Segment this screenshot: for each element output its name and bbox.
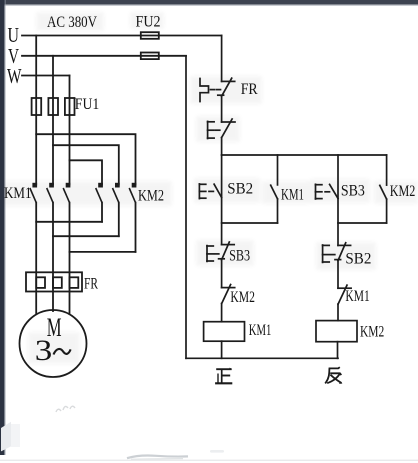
svg-text:W: W [7, 64, 22, 88]
wire bottom bus [186, 357, 338, 359]
watermark faint marks [56, 406, 75, 412]
wire left rail from V line down [185, 56, 187, 359]
watermark remnant left wedge [1, 422, 11, 452]
wire KM1 coil to bottom bus [221, 341, 223, 358]
pushbutton SB1 operator E [208, 121, 220, 138]
thermal relay FR heater 1 [36, 277, 45, 288]
wire right branch column SB3' [337, 155, 339, 245]
wire column L3 from W line through FU1 [69, 76, 71, 116]
fuse FU2 lower element [141, 53, 159, 60]
wire SB3 to KM2 interlock [221, 260, 223, 288]
svg-text:KM2: KM2 [138, 188, 164, 205]
wire merge output 3 [70, 251, 136, 253]
wire SB2' to KM1 interlock [337, 261, 339, 289]
motor M circle [20, 310, 87, 377]
wire phase-U top line [22, 35, 222, 37]
coil KM1 [204, 322, 245, 342]
pushbutton SB2 operator E [199, 184, 213, 199]
thermal relay FR heater 2 [53, 277, 62, 288]
label ~ (motor AC symbol) drawn stroke [54, 349, 71, 355]
contact KM2 pole3 [129, 184, 135, 203]
faint small mark bottom right of center [210, 450, 224, 453]
svg-text:FU2: FU2 [136, 14, 161, 31]
wire main column top from U line [221, 36, 223, 82]
pushbutton SB3 NC contact (reverse branch) [330, 184, 338, 198]
wire column L2 from V line through FU1 [52, 56, 54, 115]
wire feed crossover L1 to KM2 pole3 [36, 134, 135, 184]
contact FR NC (control) [218, 78, 235, 96]
wire stop button to branch bus [221, 138, 223, 155]
wire phase-W line [22, 75, 70, 77]
watermark remnant swish bottom center [127, 456, 188, 460]
thermal relay FR box [26, 272, 82, 291]
wire phase-V line [22, 55, 186, 57]
svg-text:SB3: SB3 [229, 248, 250, 265]
top dark border bar [0, 0, 418, 6]
contactor KM1 main contacts (3 poles) + contactor KM2 main contacts (3 poles) [30, 184, 136, 203]
coil KM2 [316, 321, 357, 342]
wire KM2 interlock to KM1 coil [221, 304, 223, 322]
contact KM2 holding NO [380, 155, 387, 223]
contact KM1 holding NO [271, 155, 278, 223]
wire KM1 interlock to KM2 coil [337, 304, 339, 321]
wire right pair rejoin [338, 222, 387, 224]
wire column L1 from FU1 to KM1 contact [35, 115, 37, 185]
contact KM2 interlock NC [222, 285, 235, 304]
contact KM2 pole1 [96, 184, 102, 203]
pushbutton SB1 stop NC contact [222, 119, 235, 138]
svg-text:KM2: KM2 [360, 324, 384, 341]
svg-text:SB3: SB3 [341, 183, 365, 200]
svg-text:FR: FR [241, 81, 258, 98]
svg-text:SB2: SB2 [227, 181, 253, 198]
svg-text:KM1: KM1 [345, 288, 369, 305]
wire feed crossover L2 to KM2 pole2 [53, 145, 119, 184]
svg-text:KM2: KM2 [230, 289, 255, 306]
wire branch bus [222, 154, 387, 156]
wire KM2 pole3 output lead [135, 203, 137, 252]
thermal relay FR heater 3 [70, 277, 79, 288]
wire KM2 coil to bottom bus [337, 342, 339, 359]
svg-text:KM1: KM1 [4, 185, 32, 202]
left dark border bar [0, 0, 6, 455]
svg-text:3: 3 [35, 334, 53, 367]
pushbutton SB3' operator E [316, 184, 330, 199]
pushbutton SB2' operator E [323, 245, 335, 262]
fuse FU1 element 3 [65, 98, 75, 115]
wire merge output 2 [53, 235, 119, 237]
wire column L2 from FU1 to KM1 contact [52, 115, 54, 185]
wire left pair rejoin [222, 222, 278, 224]
fuse FU1 element 2 [48, 98, 58, 115]
contact KM1 pole1 [30, 184, 36, 203]
pushbutton SB3 operator E [207, 246, 219, 262]
pushbutton SB2 NC contact (forward stop-interlock) [214, 184, 222, 197]
fuse FU2 upper element [141, 32, 159, 39]
contact KM1 pole3 [63, 184, 69, 203]
svg-text:FR: FR [84, 275, 98, 292]
svg-text:SB2: SB2 [345, 251, 371, 268]
label 正 (forward) drawn strokes [215, 368, 232, 384]
svg-text:KM1: KM1 [281, 186, 304, 203]
fuse FU1 element 1 [32, 98, 42, 115]
wire between FR contact and stop button [221, 96, 223, 122]
wire feed crossover L3 to KM2 pole1 [70, 160, 103, 184]
svg-text:AC 380V: AC 380V [47, 14, 98, 31]
wire merge output 1 [36, 221, 102, 223]
svg-text:KM2: KM2 [390, 183, 416, 200]
contact KM1 pole2 [47, 184, 53, 203]
control circuit [186, 36, 387, 359]
wire column L1 from U line through FU1 [35, 36, 37, 116]
svg-text:KM1: KM1 [249, 322, 272, 339]
faint bottom separator line [0, 460, 418, 461]
wire KM2 pole1 output lead [101, 203, 103, 222]
pushbutton SB3 start NO contact [219, 242, 235, 260]
wire KM2 pole2 output lead [118, 203, 120, 237]
label 反 (reverse) drawn strokes [325, 367, 342, 384]
contact KM2 pole2 [113, 184, 119, 203]
wire column L3 from FU1 to KM1 contact [69, 115, 71, 185]
wire KM1 pole outputs down to FR and motor [35, 203, 37, 314]
wire main column through SB2 down to SB3 [221, 155, 223, 245]
contact KM1 interlock NC [338, 285, 351, 304]
thermal relay FR operator symbol [200, 79, 221, 102]
pushbutton SB2' start NO contact [335, 243, 351, 261]
svg-text:FU1: FU1 [75, 96, 100, 113]
scan noise tint patches [0, 12, 418, 364]
